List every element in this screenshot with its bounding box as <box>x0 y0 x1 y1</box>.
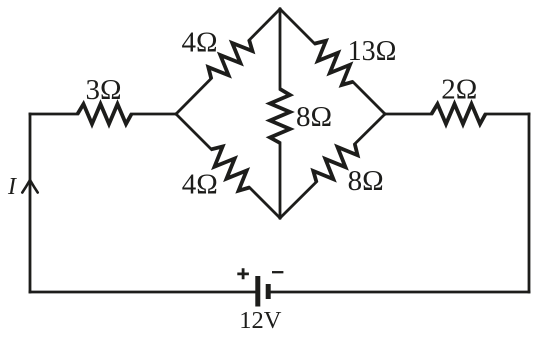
svg-text:2Ω: 2Ω <box>441 74 477 106</box>
svg-text:I: I <box>7 174 17 200</box>
svg-text:3Ω: 3Ω <box>85 74 121 106</box>
battery V1 positive long plate <box>255 276 260 307</box>
svg-text:13Ω: 13Ω <box>348 36 397 67</box>
wire top-right b <box>486 113 530 116</box>
resistor R7 8ohm bottom-right zigzag <box>309 137 361 189</box>
battery plus label <box>237 268 249 279</box>
wire C-B lower <box>280 182 316 218</box>
wire bottom-right <box>271 291 530 294</box>
wire top-right a <box>385 113 432 116</box>
resistor R4 13ohm top-right zigzag <box>308 37 360 89</box>
svg-text:4Ω: 4Ω <box>182 169 218 201</box>
resistor R3 4ohm bottom-left zigzag <box>204 142 256 194</box>
wire C-B upper <box>355 114 385 144</box>
wire T-B upper <box>279 9 282 89</box>
wire A-B upper <box>176 114 211 149</box>
svg-text:12V: 12V <box>239 307 282 334</box>
wire right vertical <box>528 114 531 292</box>
battery V1 negative short plate <box>266 284 271 299</box>
wire A-B lower <box>250 188 281 219</box>
svg-text:8Ω: 8Ω <box>348 165 384 197</box>
svg-text:4Ω: 4Ω <box>181 27 217 59</box>
wire bottom-left <box>30 291 255 294</box>
resistor R1 3ohm zigzag <box>78 104 132 124</box>
wire left vertical <box>29 114 32 292</box>
current arrow I on left wire <box>22 180 37 193</box>
svg-text:8Ω: 8Ω <box>296 101 332 133</box>
wire top-left b <box>132 113 177 116</box>
battery minus label <box>272 271 283 273</box>
resistor R5 2ohm zigzag <box>432 104 486 124</box>
wire T-C upper <box>280 9 315 44</box>
resistor R2 4ohm top-left zigzag <box>204 33 256 85</box>
wire T-C lower <box>353 82 385 114</box>
resistor R6 8ohm middle zigzag <box>270 89 290 143</box>
wire top-left a <box>30 113 78 116</box>
wire A-T upper <box>249 9 280 40</box>
wire T-B lower <box>279 143 282 218</box>
wire A-T lower <box>176 79 211 115</box>
